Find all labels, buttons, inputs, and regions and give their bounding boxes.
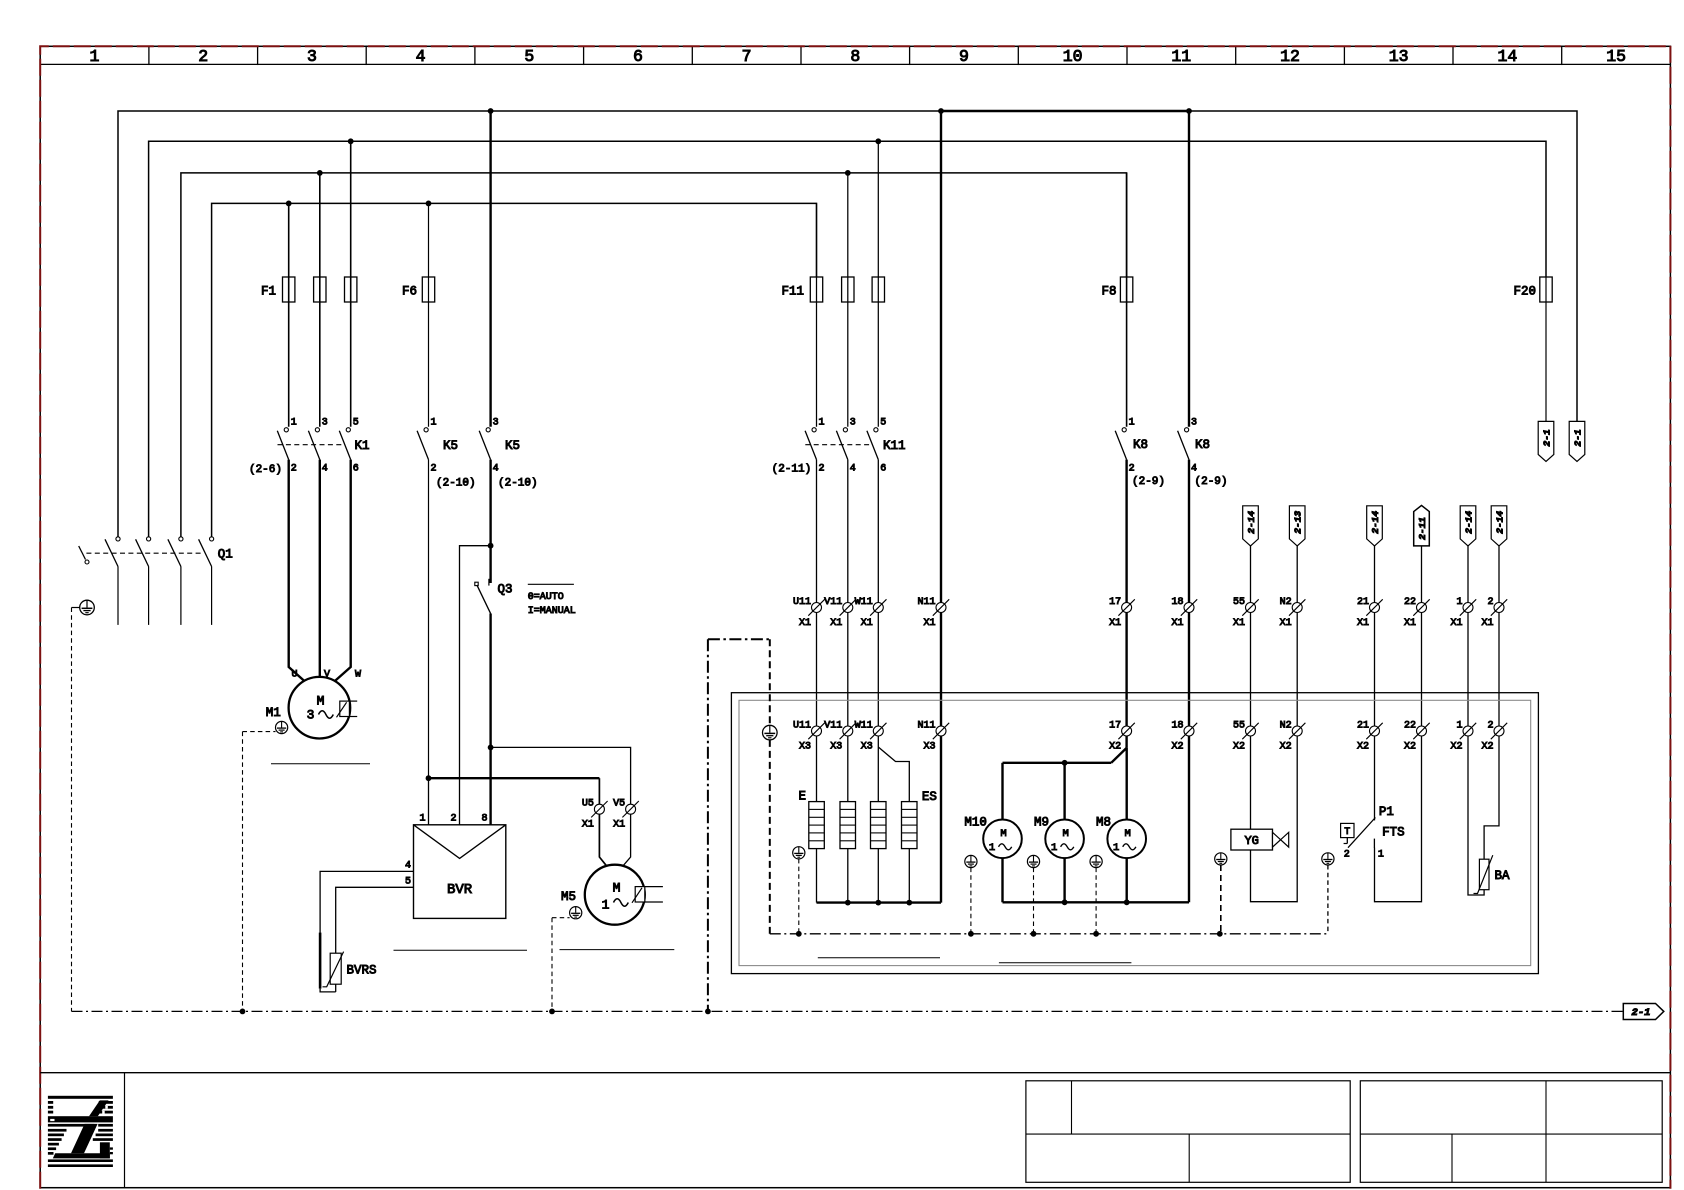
wire V5 to M5 <box>623 814 631 866</box>
enclosure inner box <box>739 700 1531 965</box>
svg-text:M5: M5 <box>561 890 576 904</box>
svg-text:F8: F8 <box>1101 285 1116 299</box>
svg-text:9: 9 <box>959 47 969 66</box>
terminal N11 X1 <box>917 597 949 629</box>
svg-text:4: 4 <box>493 464 499 475</box>
svg-text:K8: K8 <box>1133 438 1148 452</box>
svg-text:X1: X1 <box>613 820 625 831</box>
wires PE dashed motors <box>971 868 1096 934</box>
motor M1 <box>266 677 357 739</box>
wire V11 <box>847 460 849 603</box>
svg-text:YG: YG <box>1244 834 1258 848</box>
svg-text:55: 55 <box>1233 721 1245 732</box>
svg-text:(2-6): (2-6) <box>249 464 282 476</box>
ground FTS <box>1322 853 1334 865</box>
node Q3 bottom <box>488 745 494 751</box>
svg-text:6: 6 <box>353 464 359 475</box>
svg-text:N11: N11 <box>917 721 935 732</box>
node bus junctions <box>286 108 1192 206</box>
svg-text:(2-11): (2-11) <box>772 464 812 476</box>
svg-text:10: 10 <box>1063 47 1083 66</box>
svg-text:X2: X2 <box>1233 742 1245 753</box>
svg-text:U: U <box>292 670 298 681</box>
node E bus dots <box>845 900 912 906</box>
contactor K8 pole 3-4 <box>1178 111 1228 488</box>
wire PE dash-dot inside box <box>770 933 1328 935</box>
svg-text:N2: N2 <box>1280 721 1292 732</box>
svg-text:X3: X3 <box>861 742 873 753</box>
motor M10 <box>964 816 1021 859</box>
fuse F8 <box>1101 173 1132 427</box>
svg-text:M: M <box>1000 828 1006 840</box>
svg-text:X3: X3 <box>799 742 811 753</box>
heater E phase1 <box>809 802 825 849</box>
wire x816 X1 to X2 <box>816 613 818 727</box>
wire U11 <box>816 460 818 603</box>
node Q3 top <box>488 543 494 549</box>
svg-text:M9: M9 <box>1034 816 1049 830</box>
svg-text:2-13: 2-13 <box>1293 511 1304 534</box>
disconnect switch Q1 <box>79 537 233 625</box>
flag 2-14 at x1374 <box>1367 506 1383 546</box>
fuse F20 <box>1513 277 1552 421</box>
svg-text:14: 14 <box>1497 47 1517 66</box>
enclosure outer box <box>731 693 1538 974</box>
svg-text:2: 2 <box>1344 850 1350 861</box>
svg-text:7: 7 <box>742 47 752 66</box>
svg-text:2: 2 <box>1487 597 1493 608</box>
svg-text:3: 3 <box>307 47 317 66</box>
svg-text:15: 15 <box>1606 47 1626 66</box>
terminal N2 X2 <box>1280 721 1306 753</box>
svg-text:3: 3 <box>1191 418 1197 429</box>
svg-text:2: 2 <box>291 464 297 475</box>
svg-text:6: 6 <box>880 464 886 475</box>
svg-text:F11: F11 <box>781 285 804 299</box>
wire PE dashed from Q1 <box>71 608 73 1012</box>
svg-text:X1: X1 <box>861 618 873 629</box>
wire W to M1 <box>332 460 351 684</box>
svg-text:X1: X1 <box>582 820 594 831</box>
svg-text:N2: N2 <box>1280 597 1292 608</box>
svg-text:1: 1 <box>602 898 610 913</box>
wire x1250 X1 to X2 <box>1250 613 1252 727</box>
svg-text:1: 1 <box>431 418 437 429</box>
contactor K5 pole 3-4 <box>479 111 537 490</box>
svg-text:21: 21 <box>1357 721 1369 732</box>
thermostat P1 FTS <box>1341 805 1405 861</box>
heater E phase2 <box>840 802 856 849</box>
flag 2-14 at x1499 <box>1491 506 1507 546</box>
terminal 21 X1 <box>1357 597 1383 629</box>
node BVR pin1 <box>426 775 432 781</box>
svg-text:W: W <box>355 670 361 681</box>
svg-text:21: 21 <box>1357 597 1369 608</box>
wire K5a to BVR node <box>428 460 430 779</box>
svg-text:M: M <box>613 881 621 896</box>
wire x1126 X1 to X2 <box>1125 613 1127 727</box>
svg-text:M1: M1 <box>266 706 281 720</box>
wire x1189 X1 to X2 <box>1188 613 1190 727</box>
svg-text:M10: M10 <box>964 816 987 830</box>
terminal 22 X1 <box>1404 597 1430 629</box>
svg-text:E: E <box>798 790 806 804</box>
svg-text:V5: V5 <box>613 799 625 810</box>
svg-text:12: 12 <box>1280 47 1300 66</box>
svg-text:U11: U11 <box>793 597 811 608</box>
svg-text:W11: W11 <box>855 597 873 608</box>
wire W11 to E <box>877 736 879 802</box>
terminal 17 X2 <box>1109 721 1135 753</box>
svg-text:4: 4 <box>416 47 426 66</box>
wire x878 X1 to X2 <box>877 613 879 727</box>
svg-text:W11: W11 <box>855 721 873 732</box>
contactor K5 pole 1-2 <box>417 418 476 490</box>
flag 2-14 at x1250 <box>1243 506 1259 546</box>
wire PE heavy dashed into box <box>769 639 771 934</box>
svg-text:F20: F20 <box>1513 285 1536 299</box>
svg-text:18: 18 <box>1171 597 1183 608</box>
separator motors group <box>999 962 1132 964</box>
contactor K1 <box>249 418 370 477</box>
wire 21 to P1 <box>1374 736 1376 820</box>
wire 2-13 to X1 <box>1296 546 1298 603</box>
svg-text:2-1: 2-1 <box>1572 429 1583 446</box>
terminal V11 X1 <box>824 597 856 629</box>
svg-text:X1: X1 <box>1233 618 1245 629</box>
earth terminal PE main <box>72 600 95 615</box>
svg-text:1: 1 <box>1113 842 1119 854</box>
flag 2-1 left <box>1538 421 1554 461</box>
svg-text:(2-10): (2-10) <box>498 478 538 490</box>
contactor K8 pole 1-2 <box>1115 418 1165 489</box>
svg-text:U5: U5 <box>582 799 594 810</box>
node motor bus dots <box>1062 899 1130 905</box>
wire x1499 X1 to X2 <box>1498 613 1500 727</box>
svg-text:K5: K5 <box>505 439 520 453</box>
svg-text:X1: X1 <box>1357 618 1369 629</box>
terminal N2 X1 <box>1280 597 1306 629</box>
title table 2 <box>1360 1081 1662 1183</box>
svg-text:5: 5 <box>405 877 411 888</box>
wire to V5 <box>491 747 631 804</box>
svg-text:X2: X2 <box>1357 742 1369 753</box>
wire x941 X1 to X2 <box>940 613 942 727</box>
wire x847 X1 to X2 <box>847 613 849 727</box>
svg-text:1: 1 <box>1456 597 1462 608</box>
ground YG <box>1215 853 1227 865</box>
svg-text:1: 1 <box>291 418 297 429</box>
wire L2 bus <box>149 141 1546 537</box>
svg-text:X1: X1 <box>1481 618 1493 629</box>
sensor BA <box>1474 855 1511 893</box>
fuse F11 <box>781 141 884 427</box>
ground M8 <box>1090 855 1102 867</box>
svg-text:K5: K5 <box>443 439 458 453</box>
wire feed U5 <box>429 777 600 779</box>
svg-text:0=AUTO: 0=AUTO <box>528 592 564 603</box>
svg-text:1: 1 <box>90 47 100 66</box>
wire BVR pin4 <box>320 871 413 933</box>
separator E group <box>818 957 940 959</box>
wire 17 <box>1125 460 1127 603</box>
svg-text:X2: X2 <box>1450 742 1462 753</box>
node PE dots <box>240 1009 711 1015</box>
wire 2-11 to X1 <box>1421 546 1423 603</box>
svg-text:Q1: Q1 <box>218 548 233 562</box>
wire x1374 X1 to X2 <box>1374 613 1376 727</box>
svg-text:1: 1 <box>819 418 825 429</box>
svg-text:17: 17 <box>1109 597 1121 608</box>
svg-text:BA: BA <box>1495 869 1511 883</box>
svg-text:11: 11 <box>1171 47 1191 66</box>
separator M5 group <box>560 949 675 951</box>
svg-text:4: 4 <box>850 464 856 475</box>
svg-text:2-14: 2-14 <box>1494 511 1505 534</box>
switch Q3 <box>475 579 513 614</box>
svg-text:K1: K1 <box>355 439 370 453</box>
svg-text:1: 1 <box>419 814 425 825</box>
wire x1297 X1 to X2 <box>1296 613 1298 727</box>
solenoid valve YG <box>1231 829 1289 850</box>
svg-text:1: 1 <box>989 842 995 854</box>
wire L3 bus <box>181 173 1127 537</box>
wire N11 bus in box <box>817 736 942 903</box>
svg-text:2-1: 2-1 <box>1632 1007 1651 1019</box>
svg-text:5: 5 <box>880 418 886 429</box>
flag 2-14 at x1468 <box>1460 506 1476 546</box>
flag 2-13 at x1297 <box>1289 506 1305 546</box>
wire PE heavy dash-dot <box>708 639 770 1011</box>
wire x1421 X1 to X2 <box>1421 613 1423 727</box>
svg-text:6: 6 <box>633 47 643 66</box>
svg-text:V11: V11 <box>824 721 842 732</box>
svg-text:X1: X1 <box>799 618 811 629</box>
svg-text:X3: X3 <box>830 742 842 753</box>
wire PE dashed M1 <box>243 732 276 1012</box>
svg-text:P1: P1 <box>1379 805 1394 819</box>
wire 2-14 to X1 <box>1250 546 1252 603</box>
svg-text:5: 5 <box>353 418 359 429</box>
svg-text:2: 2 <box>819 464 825 475</box>
wire PE dashed M5 <box>552 918 570 1012</box>
wire P1 to 22 <box>1375 736 1422 902</box>
svg-text:17: 17 <box>1109 721 1121 732</box>
wire W11 <box>877 460 879 603</box>
wire K5b down <box>489 460 491 583</box>
svg-text:X1: X1 <box>1404 618 1416 629</box>
wire x1468 X1 to X2 <box>1467 613 1469 727</box>
wire PE dashed YG <box>1220 865 1222 934</box>
svg-text:2-14: 2-14 <box>1463 511 1474 534</box>
svg-text:22: 22 <box>1404 721 1416 732</box>
wire 17 feed motors <box>1003 736 1127 820</box>
wire 55 to YG <box>1250 736 1252 829</box>
svg-text:4: 4 <box>322 464 328 475</box>
svg-text:V11: V11 <box>824 597 842 608</box>
svg-text:1: 1 <box>1378 850 1384 861</box>
terminal U5 X1 <box>582 799 608 831</box>
probe BVRS capillary <box>319 933 322 989</box>
terminal U11 X1 <box>793 597 825 629</box>
terminal 17 X1 <box>1109 597 1135 629</box>
svg-text:X1: X1 <box>1171 618 1183 629</box>
wire 2-14 to X1 <box>1498 546 1500 603</box>
wire V11 to E <box>847 736 849 802</box>
svg-text:Q3: Q3 <box>498 583 513 597</box>
fuse F6 <box>402 203 435 426</box>
wire PE dashed E <box>798 859 800 934</box>
svg-text:BVR: BVR <box>447 882 473 898</box>
svg-text:2: 2 <box>198 47 208 66</box>
terminal N11 X3 <box>917 721 949 753</box>
svg-text:2-14: 2-14 <box>1246 511 1257 534</box>
svg-text:K8: K8 <box>1195 438 1210 452</box>
svg-text:22: 22 <box>1404 597 1416 608</box>
terminal W11 X3 <box>855 721 887 753</box>
motor M9 <box>1034 816 1084 859</box>
earth terminal PE box <box>763 725 778 740</box>
svg-text:T: T <box>1344 827 1350 838</box>
label AUTO/MANUAL <box>528 584 576 617</box>
svg-text:M: M <box>317 694 325 709</box>
ground M5 <box>570 907 582 919</box>
svg-text:ES: ES <box>922 790 937 804</box>
svg-text:55: 55 <box>1233 597 1245 608</box>
svg-text:X2: X2 <box>1171 742 1183 753</box>
node PE inside dots <box>796 931 1223 937</box>
terminal 1 X2 <box>1450 721 1476 753</box>
terminal 55 X1 <box>1233 597 1259 629</box>
motor M8 <box>1096 816 1146 859</box>
wire 2-14 to X1 <box>1374 546 1376 603</box>
wire U5 to M5 <box>599 814 607 866</box>
svg-text:3: 3 <box>850 418 856 429</box>
svg-text:X2: X2 <box>1109 742 1121 753</box>
svg-text:FTS: FTS <box>1382 826 1405 840</box>
terminal 55 X2 <box>1233 721 1259 753</box>
svg-text:U11: U11 <box>793 721 811 732</box>
flag 2-11 at x1421 <box>1414 505 1430 546</box>
title block frame <box>40 1073 1670 1188</box>
svg-text:F6: F6 <box>402 285 417 299</box>
svg-text:X1: X1 <box>923 618 935 629</box>
svg-text:1: 1 <box>1051 842 1057 854</box>
wire L1 bus <box>118 111 1577 537</box>
svg-text:2: 2 <box>431 464 437 475</box>
wire BVR pin1 <box>428 778 430 825</box>
label U V W <box>292 670 362 681</box>
ground M9 <box>1027 855 1039 867</box>
svg-text:2-11: 2-11 <box>1417 517 1428 540</box>
terminal 18 X2 <box>1171 721 1197 753</box>
svg-text:X1: X1 <box>830 618 842 629</box>
svg-text:2: 2 <box>450 814 456 825</box>
svg-text:2: 2 <box>1487 721 1493 732</box>
svg-text:N11: N11 <box>917 597 935 608</box>
svg-text:F1: F1 <box>261 285 276 299</box>
terminal U11 X3 <box>793 721 825 753</box>
wire BA to 1 <box>1468 736 1484 895</box>
fuse F1 <box>261 141 357 427</box>
terminal 18 X1 <box>1171 597 1197 629</box>
svg-text:M8: M8 <box>1096 816 1111 830</box>
wire branch to ES <box>878 747 909 802</box>
separator BVR group <box>394 949 528 951</box>
wire PE dashed FTS <box>1327 865 1329 934</box>
svg-text:4: 4 <box>1191 464 1197 475</box>
wire PE main dash-dot <box>72 1010 1624 1012</box>
svg-text:1: 1 <box>1129 418 1135 429</box>
ground E <box>793 847 805 859</box>
svg-text:X1: X1 <box>1109 618 1121 629</box>
svg-text:2-14: 2-14 <box>1370 511 1381 534</box>
wire 2 to BA <box>1484 736 1499 859</box>
terminal 2 X2 <box>1481 721 1507 753</box>
wire YG to N2 <box>1251 736 1298 902</box>
controller BVR <box>405 814 506 919</box>
ground M1 <box>276 721 288 733</box>
svg-text:2: 2 <box>1129 464 1135 475</box>
wire to BVR pin2 <box>460 546 491 825</box>
svg-text:K11: K11 <box>883 439 906 453</box>
node M9 top <box>1062 760 1068 766</box>
svg-text:M: M <box>1062 828 1068 840</box>
terminal 2 X1 <box>1481 597 1507 629</box>
logo company mark <box>48 1096 113 1167</box>
svg-text:X1: X1 <box>1280 618 1292 629</box>
svg-text:X2: X2 <box>1280 742 1292 753</box>
svg-text:I=MANUAL: I=MANUAL <box>528 606 576 617</box>
terminal V5 X1 <box>613 799 639 831</box>
wire Q3 to BVR pin8 <box>489 614 491 825</box>
heater E phase3 <box>871 802 887 849</box>
svg-text:BVRS: BVRS <box>347 964 377 978</box>
terminal 21 X2 <box>1357 721 1383 753</box>
svg-text:3: 3 <box>322 418 328 429</box>
title table 1 <box>1026 1081 1350 1183</box>
svg-text:8: 8 <box>850 47 860 66</box>
svg-text:8: 8 <box>481 814 487 825</box>
svg-text:(2-10): (2-10) <box>436 478 476 490</box>
svg-text:18: 18 <box>1171 721 1183 732</box>
svg-text:X1: X1 <box>1450 618 1462 629</box>
flag 2-1 right <box>1569 421 1585 461</box>
svg-text:M: M <box>1125 828 1131 840</box>
svg-text:2-1: 2-1 <box>1541 429 1552 446</box>
svg-text:X2: X2 <box>1404 742 1416 753</box>
wire V to M1 <box>319 460 321 678</box>
contactor K11 <box>772 418 906 476</box>
flag 2-1 PE arrow <box>1623 1004 1664 1020</box>
svg-text:(2-9): (2-9) <box>1132 476 1165 488</box>
wires E bottoms <box>817 849 910 903</box>
svg-text:3: 3 <box>307 708 315 723</box>
svg-text:13: 13 <box>1389 47 1409 66</box>
svg-text:X3: X3 <box>923 742 935 753</box>
wire motor bottoms bus <box>1003 736 1190 902</box>
wire N bus <box>212 203 817 536</box>
heater ES <box>902 802 918 849</box>
ground M10 <box>965 855 977 867</box>
wire BVR pin5 <box>336 887 414 953</box>
terminal 1 X1 <box>1450 597 1476 629</box>
terminal V11 X3 <box>824 721 856 753</box>
terminal W11 X1 <box>855 597 887 629</box>
wire 18 <box>1188 460 1190 603</box>
wire N11 <box>940 111 942 603</box>
wire 2-14 to X1 <box>1467 546 1469 603</box>
